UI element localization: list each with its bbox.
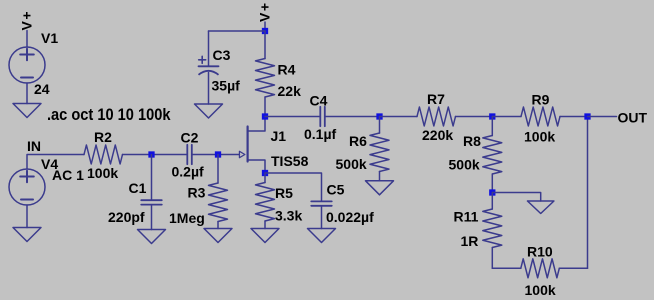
svg-text:R7: R7 [427, 91, 445, 107]
resistor R2 [84, 145, 123, 164]
wire C2 to gate node [192, 154, 240, 156]
ground under R3 [204, 229, 232, 243]
svg-text:IN: IN [27, 138, 41, 154]
wire junction to C3 [209, 30, 266, 32]
junction C2/R3/gate [215, 151, 221, 157]
wire node to floating ground [492, 193, 540, 202]
wire R7 to node [456, 116, 493, 118]
svg-text:C5: C5 [327, 182, 345, 198]
svg-text:R4: R4 [278, 62, 296, 78]
svg-text:V1: V1 [41, 30, 58, 46]
svg-text:1Meg: 1Meg [169, 210, 205, 226]
svg-text:35µf: 35µf [212, 78, 241, 94]
svg-text:R8: R8 [463, 133, 481, 149]
wire R9 to OUT node [560, 116, 588, 118]
wire right column up to OUT node [587, 117, 589, 269]
wire V+ flag stem [264, 22, 266, 31]
wire R5 to ground [264, 221, 266, 229]
svg-text:R5: R5 [275, 185, 293, 201]
transistor J1 drain lead [248, 117, 265, 132]
svg-text:220pf: 220pf [108, 209, 145, 225]
resistor R10 [521, 259, 560, 278]
wire node to R7 [380, 116, 418, 118]
svg-text:R11: R11 [454, 209, 479, 225]
svg-text:C1: C1 [129, 180, 147, 196]
svg-text:0.2µf: 0.2µf [172, 164, 205, 180]
plus mark of C3 [199, 59, 206, 61]
wire C5 to ground [321, 206, 323, 229]
junction J1 source node [262, 170, 268, 176]
wire V+ junction to R4 [264, 31, 266, 59]
resistor R3 [209, 183, 228, 222]
junction R2/C1/C2 [148, 151, 154, 157]
svg-text:24: 24 [34, 81, 50, 97]
wire source node to R5 [264, 173, 266, 183]
ground under R6 [366, 181, 394, 195]
wire R2 to node [123, 154, 188, 156]
svg-text:TIS58: TIS58 [271, 153, 309, 169]
svg-text:0.022µf: 0.022µf [326, 209, 374, 225]
svg-text:500k: 500k [336, 156, 367, 172]
wire R10 to right column [559, 267, 587, 269]
svg-text:V+: V+ [257, 1, 273, 22]
wire node to C1 [151, 155, 153, 201]
wire R4 to drain node [264, 97, 266, 117]
wire R3 to ground [217, 222, 219, 229]
wire OUT stub [588, 116, 617, 118]
junction OUT node [584, 113, 590, 119]
ground under R5 [251, 229, 279, 243]
transistor J1 gate arrow [239, 151, 245, 157]
svg-text:100k: 100k [525, 282, 556, 298]
svg-text:22k: 22k [278, 83, 302, 99]
transistor J1 channel bar [247, 127, 249, 162]
ground under C5 [308, 229, 336, 243]
resistor R7 [417, 107, 456, 126]
wire R8 to node [491, 174, 493, 193]
voltage source V1 [9, 47, 45, 83]
ground under V4 [13, 228, 41, 242]
junction R8/R11/ground [489, 189, 495, 195]
svg-text:220k: 220k [422, 127, 453, 143]
transistor J1 source lead [248, 160, 265, 173]
resistor R6 [370, 133, 389, 172]
ground under V1 [13, 104, 41, 118]
svg-text:OUT: OUT [618, 110, 648, 126]
svg-text:J1: J1 [271, 128, 287, 144]
wire V1 bottom to ground [26, 83, 28, 104]
wire C1 to ground [151, 205, 153, 230]
junction V+/C3/R4 [262, 28, 268, 34]
wire V+ flag to V1 top [26, 31, 28, 48]
svg-text:100k: 100k [87, 165, 118, 181]
resistor R4 [256, 59, 275, 98]
svg-text:R3: R3 [188, 185, 206, 201]
wire source node to C5 [265, 173, 322, 201]
resistor R11 [483, 209, 502, 248]
wire R6 to ground [379, 172, 381, 181]
svg-text:R10: R10 [527, 244, 553, 260]
svg-text:AC 1: AC 1 [52, 167, 84, 183]
junction C4/R6/R7 [376, 113, 382, 119]
wire node to R11 [491, 193, 493, 210]
svg-text:R2: R2 [94, 129, 112, 145]
svg-text:R9: R9 [532, 92, 550, 108]
capacitor C2 [186, 145, 188, 165]
wire node to R9 [492, 116, 521, 118]
ground right of R8 [527, 201, 554, 214]
svg-text:R6: R6 [349, 133, 367, 149]
wire C3 to ground [208, 73, 210, 105]
ground under C3 [195, 104, 223, 118]
svg-text:3.3k: 3.3k [275, 208, 302, 224]
svg-text:500k: 500k [449, 157, 480, 173]
wire node to R3 [217, 155, 219, 184]
wire corner to R10 [492, 267, 521, 269]
ground under C1 [138, 230, 166, 244]
capacitor C3 (polarized) [199, 65, 219, 67]
wire V4 bottom to ground [26, 205, 28, 228]
capacitor C1 [141, 199, 162, 201]
capacitor C5 [311, 200, 332, 202]
svg-text:1R: 1R [461, 233, 479, 249]
wire node to R8 [491, 117, 493, 136]
svg-text:V+: V+ [19, 10, 35, 31]
svg-text:0.1µf: 0.1µf [304, 126, 337, 142]
capacitor C4 [319, 107, 321, 127]
junction R4/J1/C4 [262, 113, 268, 119]
wire V4 to IN corner [27, 155, 84, 170]
svg-text:C2: C2 [181, 130, 199, 146]
wire drain node to C4 [265, 116, 320, 118]
svg-text:100k: 100k [524, 129, 555, 145]
wire C3 top stem [208, 31, 210, 66]
resistor R9 [521, 107, 560, 126]
svg-text:C4: C4 [310, 93, 328, 109]
resistor R5 [256, 183, 275, 222]
junction R7/R8/R9 [489, 113, 495, 119]
wire node to R6 [379, 117, 381, 134]
voltage source V4 [9, 169, 45, 205]
svg-text:.ac oct 10 10 100k: .ac oct 10 10 100k [47, 106, 171, 124]
svg-text:C3: C3 [213, 47, 231, 63]
resistor R8 [483, 136, 502, 175]
wire C4 to R6 node [325, 116, 380, 118]
wire R11 to bottom corner [491, 248, 493, 269]
